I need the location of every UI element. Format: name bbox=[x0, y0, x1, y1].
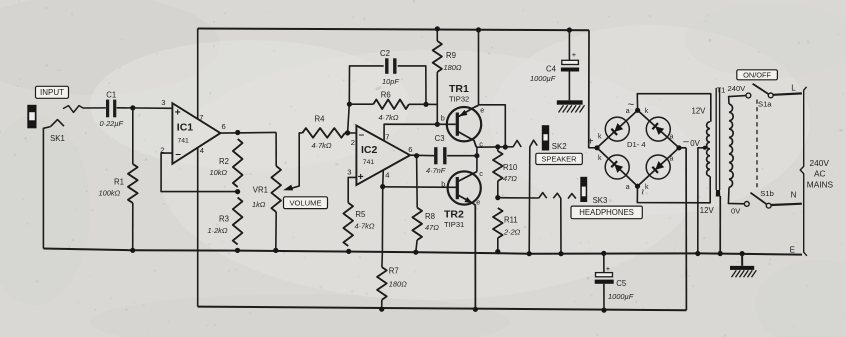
svg-text:1000µF: 1000µF bbox=[530, 74, 556, 83]
wire: R9 vertical bbox=[436, 29, 438, 125]
capacitor C4 bbox=[561, 50, 579, 72]
node: TR2 emitter to negative rail bbox=[473, 307, 478, 312]
svg-text:k: k bbox=[645, 108, 649, 115]
wire: screen earth lead bbox=[719, 196, 721, 254]
svg-text:240V: 240V bbox=[728, 84, 747, 93]
resistor R3 bbox=[233, 198, 243, 245]
node: C5 on 0V rail bbox=[601, 251, 606, 256]
wire: collector bus vertical bbox=[476, 147, 478, 172]
node: C5 to negative rail bbox=[601, 308, 606, 313]
wire: live lead bbox=[773, 93, 802, 94]
svg-text:R5: R5 bbox=[355, 210, 366, 219]
node: bypass to output node bbox=[503, 144, 508, 149]
svg-text:ON/OFF: ON/OFF bbox=[743, 71, 771, 80]
potentiometer VR1 bbox=[271, 166, 281, 212]
node: speaker return on 0V rail bbox=[527, 251, 532, 256]
label HEADPHONES box bbox=[571, 206, 642, 219]
node: VR1 wiper arrowhead bbox=[283, 185, 293, 191]
label ON/OFF box bbox=[737, 70, 778, 80]
svg-text:+: + bbox=[588, 137, 594, 148]
wire: speaker jack chevron 1 bbox=[513, 140, 521, 147]
svg-text:7: 7 bbox=[199, 113, 203, 122]
value 4-7nF bbox=[426, 166, 446, 175]
label R6 bbox=[381, 91, 391, 100]
label R5 bbox=[355, 210, 366, 219]
svg-text:R2: R2 bbox=[219, 157, 229, 166]
pin b TR1 bbox=[441, 113, 445, 122]
svg-text:4·7kΩ: 4·7kΩ bbox=[355, 221, 375, 230]
wire: bridge diamond bbox=[597, 110, 679, 186]
svg-text:+: + bbox=[175, 107, 181, 118]
connector SK1 plug bbox=[27, 105, 36, 129]
svg-text:N: N bbox=[791, 190, 797, 199]
wire: TR1 base / IC2 pin7 line bbox=[384, 124, 456, 141]
svg-text:2·2Ω: 2·2Ω bbox=[503, 227, 521, 236]
svg-text:R8: R8 bbox=[425, 212, 435, 221]
value 180 R9 bbox=[444, 63, 462, 72]
wire: R8 bottom lead bbox=[416, 240, 417, 252]
label TIP31 bbox=[444, 220, 464, 229]
svg-text:0V: 0V bbox=[690, 139, 700, 148]
label 240V mains bbox=[810, 158, 830, 168]
switch S1a bbox=[746, 84, 773, 98]
svg-text:TR1: TR1 bbox=[449, 83, 469, 95]
label T1 bbox=[717, 86, 726, 95]
label 12V bottom bbox=[700, 206, 715, 215]
svg-text:10kΩ: 10kΩ bbox=[210, 168, 228, 177]
svg-text:e: e bbox=[480, 105, 484, 114]
label minus bridge bbox=[683, 136, 689, 147]
label R11 bbox=[504, 215, 518, 224]
node: centre tap on 0V rail bbox=[695, 251, 700, 256]
svg-text:–: – bbox=[175, 149, 181, 160]
wire: C2 right lead bbox=[398, 66, 426, 104]
node: IC2 pin2 junction bbox=[345, 130, 350, 135]
svg-text:S1a: S1a bbox=[758, 99, 772, 108]
value 47 R10 bbox=[503, 174, 517, 183]
node: R6 left junction bbox=[347, 102, 352, 107]
svg-text:–: – bbox=[683, 136, 689, 147]
svg-text:k: k bbox=[645, 184, 649, 191]
label SK3 bbox=[593, 196, 608, 205]
wire: VR1 bottom lead bbox=[275, 212, 277, 250]
label 240V primary bbox=[728, 84, 747, 93]
svg-text:c: c bbox=[479, 140, 483, 149]
resistor R7 bbox=[377, 267, 387, 300]
wire: headphone jack chevron 3 bbox=[568, 194, 576, 199]
wire: primary bottom lead bbox=[728, 187, 744, 203]
svg-text:INPUT: INPUT bbox=[40, 88, 64, 97]
transformer T1 core bbox=[716, 88, 721, 197]
svg-text:C5: C5 bbox=[616, 279, 627, 288]
label TR2 bbox=[444, 209, 464, 221]
wire: pin6 node down to R8 bbox=[416, 156, 419, 208]
label SPEAKER box bbox=[536, 153, 583, 164]
svg-text:R1: R1 bbox=[114, 178, 124, 187]
svg-text:4·7nF: 4·7nF bbox=[426, 166, 446, 175]
svg-text:TIP32: TIP32 bbox=[449, 95, 469, 104]
node: screen earth on 0V rail bbox=[718, 251, 723, 256]
node: C3 output-side junction bbox=[474, 153, 479, 158]
label INPUT box bbox=[36, 86, 69, 98]
node: R7 to negative rail bbox=[379, 307, 384, 312]
wire: input signal with flex bbox=[63, 106, 106, 113]
resistor R10 bbox=[493, 151, 503, 181]
value 0-22uF bbox=[100, 119, 124, 128]
svg-text:+: + bbox=[606, 264, 611, 273]
pin 7 label IC2 bbox=[385, 132, 389, 141]
svg-text:R3: R3 bbox=[219, 214, 229, 223]
label C1 bbox=[106, 90, 116, 99]
label S1a bbox=[758, 99, 772, 108]
svg-text:HEADPHONES: HEADPHONES bbox=[579, 208, 634, 217]
svg-text:R10: R10 bbox=[503, 163, 518, 172]
svg-text:TR2: TR2 bbox=[444, 209, 464, 221]
node: TR1 base junction bbox=[435, 122, 440, 127]
value 1-2k bbox=[208, 226, 228, 235]
svg-text:7: 7 bbox=[385, 132, 389, 141]
node: IC2 pin4 / TR2 base junction bbox=[380, 184, 385, 189]
node: bridge bottom vertex bbox=[635, 184, 640, 189]
diode D2 (top-right) bbox=[646, 117, 670, 141]
label 12V top bbox=[692, 107, 707, 116]
label R3 bbox=[219, 214, 229, 223]
svg-text:SK3: SK3 bbox=[593, 196, 608, 205]
wire: C1 to IC1 pin3 bbox=[117, 107, 173, 110]
node: R2/R3 feedback junction bbox=[235, 189, 240, 194]
op-amp IC2 bbox=[356, 126, 410, 186]
label E bbox=[790, 245, 795, 254]
node: centre tap at winding bbox=[703, 146, 707, 150]
svg-text:AC: AC bbox=[814, 169, 826, 179]
wire: C4 bottom lead bbox=[568, 72, 570, 101]
svg-text:IC1: IC1 bbox=[177, 122, 194, 134]
node: C1/R1 junction bbox=[130, 105, 135, 110]
label R4 bbox=[315, 114, 326, 123]
node: bridge left vertex bbox=[594, 145, 599, 150]
value 1000uF C5 bbox=[608, 292, 634, 301]
wire: R6 node to R9 line bbox=[426, 103, 437, 105]
svg-text:SK1: SK1 bbox=[50, 134, 65, 143]
capacitor C5 bbox=[595, 264, 614, 284]
wire: R6 right lead bbox=[409, 103, 426, 105]
svg-text:T1: T1 bbox=[717, 86, 726, 95]
wire: IC2 pin3 lead bbox=[348, 177, 356, 202]
wire: R11 bottom lead bbox=[497, 238, 499, 252]
value 10k bbox=[210, 168, 228, 177]
node: R8 to 0V rail bbox=[413, 250, 418, 255]
wire: output node horizontal bbox=[476, 146, 513, 148]
inductor T1 secondary winding bbox=[707, 122, 710, 176]
svg-text:k: k bbox=[598, 134, 602, 141]
pin c TR2 bbox=[479, 169, 483, 178]
wire: switch gang dashed link bbox=[756, 100, 758, 190]
label S1b bbox=[760, 189, 774, 198]
wire: R1 lead bottom bbox=[132, 203, 134, 250]
mains brace bbox=[800, 87, 807, 256]
svg-text:SK2: SK2 bbox=[552, 142, 567, 151]
node: VR1 to 0V rail bbox=[273, 248, 278, 253]
connector SK2 plug bbox=[542, 125, 549, 150]
wire: IC1 output bbox=[220, 131, 276, 134]
svg-text:TIP31: TIP31 bbox=[444, 220, 464, 229]
connector SK3 plug bbox=[580, 177, 587, 202]
label R9 bbox=[446, 51, 456, 60]
wire: C2 left branch bbox=[348, 66, 384, 133]
svg-text:+: + bbox=[358, 172, 364, 183]
resistor R8 bbox=[412, 208, 422, 240]
node: earth stub on 0V rail bbox=[740, 251, 745, 256]
inductor T1 primary winding bbox=[729, 104, 733, 187]
wire: 0V ground rail bbox=[43, 249, 802, 255]
pin c TR1 bbox=[479, 140, 483, 149]
value 100k bbox=[99, 189, 121, 198]
svg-text:3: 3 bbox=[347, 167, 351, 176]
pin 2 label IC2 bbox=[351, 138, 355, 147]
wire: earth stub bbox=[741, 254, 743, 266]
label cathode bottom-right bbox=[645, 184, 649, 191]
node: R10 top junction bbox=[495, 144, 500, 149]
node: headphone return on 0V rail bbox=[558, 251, 563, 256]
wire: C4 top lead bbox=[568, 30, 570, 60]
svg-text:R11: R11 bbox=[504, 215, 518, 224]
diode D3 (bottom-left) bbox=[605, 155, 629, 179]
wire: IC2 output to C3 bbox=[410, 154, 434, 157]
wire: emitter bypass rectangle bbox=[479, 105, 506, 147]
svg-text:a: a bbox=[626, 184, 630, 191]
svg-text:741: 741 bbox=[178, 138, 190, 145]
label cathode top-right bbox=[645, 108, 649, 115]
resistor R1 bbox=[128, 164, 138, 203]
label C4 bbox=[546, 65, 557, 74]
wire: R4 right lead bbox=[345, 132, 357, 134]
pin 4 label bbox=[200, 146, 204, 155]
svg-text:SPEAKER: SPEAKER bbox=[542, 155, 577, 164]
label 0V primary bbox=[731, 207, 741, 216]
svg-text:12V: 12V bbox=[700, 206, 715, 215]
label anode right-up bbox=[670, 134, 674, 141]
resistor R2 bbox=[233, 139, 243, 187]
resistor R4 bbox=[302, 128, 345, 138]
label bridge ac bottom bbox=[636, 188, 648, 194]
svg-text:6: 6 bbox=[222, 122, 226, 131]
label R10 bbox=[503, 163, 518, 172]
svg-text:k: k bbox=[598, 155, 602, 162]
node: bridge right vertex bbox=[676, 145, 681, 150]
transistor TR2 bbox=[448, 171, 481, 309]
svg-text:R4: R4 bbox=[315, 114, 326, 123]
label R7 bbox=[389, 266, 399, 275]
node: R3 to 0V rail bbox=[235, 248, 240, 253]
pin 6 label IC2 bbox=[408, 145, 412, 154]
wire: C5 bottom lead bbox=[603, 284, 605, 310]
pin 7 label bbox=[199, 113, 203, 122]
switch S1b bbox=[744, 193, 771, 208]
node: R9 top on +V rail bbox=[435, 26, 440, 31]
capacitor C2 bbox=[387, 58, 395, 74]
label TIP32 bbox=[449, 95, 469, 104]
svg-text:S1b: S1b bbox=[760, 189, 774, 198]
label cathode left-up bbox=[598, 134, 602, 141]
svg-text:E: E bbox=[790, 245, 795, 254]
value 4-7k R5 bbox=[355, 221, 375, 230]
wire: R7 bottom lead bbox=[381, 300, 383, 310]
wire: R10-R11 link bbox=[497, 147, 499, 198]
svg-text:0V: 0V bbox=[731, 207, 741, 216]
value 2-2 bbox=[503, 227, 521, 236]
value 47 R8 bbox=[425, 223, 439, 232]
label R8 bbox=[425, 212, 435, 221]
node: IC2 pin6 junction bbox=[414, 153, 419, 158]
wire: IC1 pin4 to negative rail bbox=[197, 148, 199, 307]
pin 3 label bbox=[161, 98, 165, 107]
pin 6 label bbox=[222, 122, 226, 131]
wire: VR1 top lead bbox=[275, 132, 277, 166]
label C5 bbox=[616, 279, 627, 288]
svg-text:a: a bbox=[670, 156, 674, 163]
resistor R5 bbox=[343, 203, 353, 246]
capacitor C1 bbox=[108, 100, 115, 118]
label SK2 bbox=[552, 142, 567, 151]
svg-text:R7: R7 bbox=[389, 266, 399, 275]
svg-text:180Ω: 180Ω bbox=[389, 279, 407, 288]
svg-text:a: a bbox=[670, 134, 674, 141]
label MAINS bbox=[807, 180, 834, 190]
label VR1 bbox=[253, 185, 268, 194]
svg-text:1·2kΩ: 1·2kΩ bbox=[208, 226, 228, 235]
wire: C5 top lead bbox=[603, 253, 605, 272]
transistor TR1 bbox=[447, 105, 481, 147]
wire: R6 left lead bbox=[349, 103, 373, 105]
label anode bottom-left bbox=[626, 184, 630, 191]
svg-text:a: a bbox=[626, 108, 630, 115]
svg-text:1000µF: 1000µF bbox=[608, 292, 634, 301]
label 0V centre tap bbox=[690, 139, 700, 148]
label D1-4 bbox=[627, 140, 646, 149]
svg-text:C1: C1 bbox=[106, 90, 116, 99]
ground: mains earth bbox=[730, 266, 756, 277]
label R2 bbox=[219, 157, 229, 166]
svg-text:1kΩ: 1kΩ bbox=[252, 200, 266, 209]
value 180 R7 bbox=[389, 279, 407, 288]
svg-text:L: L bbox=[791, 83, 796, 92]
resistor R11 bbox=[493, 208, 503, 238]
capacitor C3 bbox=[436, 147, 445, 164]
svg-text:R6: R6 bbox=[381, 91, 391, 100]
label C3 bbox=[435, 134, 445, 143]
pin 4 label IC2 bbox=[385, 170, 389, 179]
node: C2/R6 right junction bbox=[423, 102, 428, 107]
label cathode left-down bbox=[598, 155, 602, 162]
value 10pF bbox=[382, 77, 399, 86]
resistor R9 bbox=[433, 41, 442, 72]
node: R1 to 0V rail bbox=[130, 248, 135, 253]
wire: bridge bottom AC link bbox=[637, 176, 710, 203]
pin e TR1 bbox=[480, 105, 484, 114]
svg-text:c: c bbox=[479, 169, 483, 178]
svg-text:4·7kΩ: 4·7kΩ bbox=[379, 113, 399, 122]
svg-text:VR1: VR1 bbox=[253, 185, 268, 194]
wire: IC1 pin7 to +V rail bbox=[197, 29, 199, 120]
label AC mains bbox=[814, 169, 826, 179]
label R1 bbox=[114, 178, 124, 187]
value 4-7k R6 bbox=[379, 113, 399, 122]
wire: bridge negative drop to negative rail bbox=[685, 148, 687, 310]
svg-text:3: 3 bbox=[161, 98, 165, 107]
wire: bridge negative stub bbox=[679, 147, 686, 149]
svg-text:2: 2 bbox=[160, 145, 164, 154]
wire: R1 lead top bbox=[132, 108, 134, 164]
svg-text:741: 741 bbox=[363, 159, 375, 166]
node: R11 to 0V rail bbox=[495, 249, 500, 254]
label plus bridge bbox=[588, 137, 594, 148]
pin 2 label bbox=[160, 145, 164, 154]
value 4-7k R4 bbox=[312, 141, 332, 150]
diode D4 (bottom-right) bbox=[646, 155, 670, 179]
resistor R6 bbox=[373, 100, 409, 110]
wire: bridge top AC link bbox=[637, 94, 711, 122]
svg-text:–: – bbox=[359, 130, 365, 141]
label anode right-down bbox=[670, 156, 674, 163]
svg-text:100kΩ: 100kΩ bbox=[99, 189, 121, 198]
svg-text:6: 6 bbox=[408, 145, 412, 154]
label TR1 bbox=[449, 83, 469, 95]
wire: transformer centre tap bbox=[698, 148, 706, 254]
pin 3 label IC2 bbox=[347, 167, 351, 176]
diode D1 (top-left) bbox=[605, 117, 629, 141]
label VOLUME box bbox=[284, 197, 328, 209]
svg-text:C4: C4 bbox=[546, 65, 557, 74]
svg-text:2: 2 bbox=[351, 138, 355, 147]
ground: C4 chassis bbox=[557, 100, 585, 112]
label SK1 bbox=[50, 134, 65, 143]
wire: speaker jack chevron 2 with return bbox=[529, 140, 537, 254]
svg-text:+: + bbox=[572, 50, 577, 59]
svg-text:R9: R9 bbox=[446, 51, 456, 60]
wire: VR1 wiper from R4 bbox=[289, 133, 303, 189]
svg-text:b: b bbox=[441, 113, 445, 122]
wire: SK1 ground side bbox=[43, 127, 50, 249]
node: C4 on +V rail bbox=[567, 27, 572, 32]
label N bbox=[791, 190, 797, 199]
wire: headphone jack chevron 2 with return bbox=[553, 193, 561, 254]
svg-text:4: 4 bbox=[200, 146, 204, 155]
node: IC1 output junction bbox=[235, 130, 240, 135]
label anode top-left bbox=[626, 108, 630, 115]
wire: headphone jack chevron 1 bbox=[539, 193, 547, 199]
node: R5 to 0V rail bbox=[346, 249, 351, 254]
wire: IC2 pin4 line bbox=[382, 170, 383, 267]
wire: primary top lead bbox=[729, 96, 746, 104]
wire: negative supply bottom rail bbox=[198, 307, 687, 311]
svg-text:47Ω: 47Ω bbox=[503, 174, 517, 183]
svg-text:e: e bbox=[476, 197, 480, 206]
pin b TR2 bbox=[441, 179, 445, 188]
node: bridge top vertex bbox=[635, 108, 640, 113]
wire: headphone line bbox=[498, 197, 539, 199]
wire: TR2 base line bbox=[383, 186, 456, 189]
svg-text:47Ω: 47Ω bbox=[425, 223, 439, 232]
wire: C3 right lead bbox=[447, 155, 477, 157]
svg-text:C3: C3 bbox=[435, 134, 445, 143]
svg-text:4: 4 bbox=[385, 170, 389, 179]
value 1k bbox=[252, 200, 266, 209]
label bridge ac top bbox=[628, 99, 634, 111]
svg-text:b: b bbox=[441, 179, 445, 188]
svg-text:0·22µF: 0·22µF bbox=[100, 119, 124, 128]
svg-text:D1- 4: D1- 4 bbox=[627, 140, 646, 149]
wire: +V rail drop to bridge positive node bbox=[589, 30, 597, 148]
